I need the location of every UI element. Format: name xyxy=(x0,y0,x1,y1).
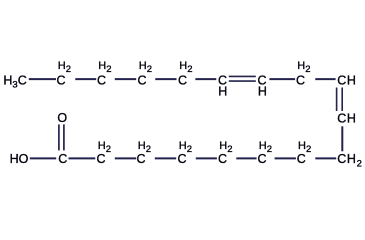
svg-text:C: C xyxy=(58,152,67,166)
svg-text:HO: HO xyxy=(10,152,29,166)
svg-text:C: C xyxy=(297,152,306,166)
svg-text:CH: CH xyxy=(337,112,356,126)
svg-text:C: C xyxy=(177,152,186,166)
svg-text:O: O xyxy=(57,111,67,125)
svg-text:C: C xyxy=(137,73,146,87)
svg-text:CH: CH xyxy=(337,73,356,87)
svg-text:H: H xyxy=(258,85,267,99)
svg-text:C: C xyxy=(178,73,187,87)
svg-text:C: C xyxy=(296,73,305,87)
svg-text:C: C xyxy=(218,152,227,166)
svg-text:C: C xyxy=(97,73,106,87)
svg-text:C: C xyxy=(136,152,145,166)
svg-text:C: C xyxy=(96,152,105,166)
svg-text:C: C xyxy=(257,152,266,166)
svg-text:H: H xyxy=(218,85,227,99)
svg-text:C: C xyxy=(56,73,65,87)
